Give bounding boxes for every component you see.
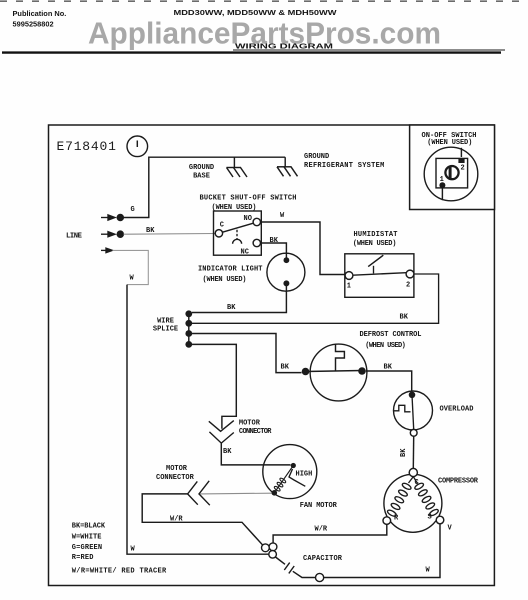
svg-text:NO: NO	[244, 215, 252, 223]
svg-text:MOTOR: MOTOR	[166, 465, 188, 473]
svg-text:2: 2	[461, 165, 465, 173]
svg-text:G=GREEN: G=GREEN	[72, 544, 102, 552]
svg-text:G: G	[131, 206, 135, 214]
svg-text:E718401: E718401	[57, 139, 117, 154]
svg-text:BK: BK	[400, 314, 409, 322]
svg-text:BK: BK	[281, 364, 290, 372]
svg-text:WIRE: WIRE	[157, 318, 174, 326]
svg-text:BUCKET SHUT-OFF SWITCH: BUCKET SHUT-OFF SWITCH	[200, 195, 297, 203]
svg-text:BK: BK	[400, 448, 408, 457]
svg-text:W/R: W/R	[170, 516, 183, 524]
svg-text:BASE: BASE	[193, 173, 210, 181]
svg-text:NC: NC	[241, 248, 249, 256]
svg-text:CONNECTOR: CONNECTOR	[156, 474, 195, 482]
svg-text:WIRING DIAGRAM: WIRING DIAGRAM	[235, 42, 333, 51]
svg-text:FAN MOTOR: FAN MOTOR	[300, 502, 338, 510]
svg-text:(WHEN USED): (WHEN USED)	[365, 342, 406, 350]
svg-text:BK: BK	[227, 304, 236, 312]
svg-text:R=RED: R=RED	[72, 554, 94, 562]
svg-text:1: 1	[347, 283, 351, 291]
svg-text:MOTOR: MOTOR	[239, 419, 261, 427]
svg-text:Publication No.: Publication No.	[13, 9, 67, 18]
svg-text:BK=BLACK: BK=BLACK	[72, 523, 106, 531]
svg-text:HIGH: HIGH	[296, 471, 313, 479]
svg-text:BK: BK	[384, 363, 393, 371]
svg-text:CONNECTOR: CONNECTOR	[239, 428, 272, 436]
svg-text:REFRIGERANT SYSTEM: REFRIGERANT SYSTEM	[304, 162, 384, 170]
svg-text:2: 2	[406, 282, 410, 290]
svg-text:INDICATOR LIGHT: INDICATOR LIGHT	[198, 266, 263, 274]
svg-text:(WHEN USED): (WHEN USED)	[203, 276, 247, 284]
svg-text:C: C	[220, 222, 224, 230]
svg-text:1: 1	[440, 176, 444, 184]
svg-text:W/R: W/R	[315, 525, 328, 533]
svg-text:BK: BK	[270, 237, 279, 245]
svg-text:GROUND: GROUND	[189, 164, 214, 172]
svg-text:W=WHITE: W=WHITE	[72, 533, 102, 541]
svg-text:GROUND: GROUND	[304, 153, 329, 161]
svg-text:DEFROST CONTROL: DEFROST CONTROL	[360, 331, 422, 339]
svg-text:W/R=WHITE/ RED TRACER: W/R=WHITE/ RED TRACER	[72, 567, 167, 575]
svg-text:5995258802: 5995258802	[13, 20, 54, 29]
svg-text:BK: BK	[223, 448, 232, 456]
svg-text:COMPRESSOR: COMPRESSOR	[438, 478, 479, 486]
svg-text:SPLICE: SPLICE	[153, 326, 178, 334]
svg-text:(WHEN USED): (WHEN USED)	[353, 240, 397, 248]
svg-text:CAPACITOR: CAPACITOR	[303, 555, 343, 563]
svg-text:OVERLOAD: OVERLOAD	[440, 405, 474, 413]
svg-text:HUMIDISTAT: HUMIDISTAT	[354, 231, 398, 239]
svg-text:LINE: LINE	[66, 233, 83, 241]
svg-text:(WHEN USED): (WHEN USED)	[427, 139, 472, 147]
